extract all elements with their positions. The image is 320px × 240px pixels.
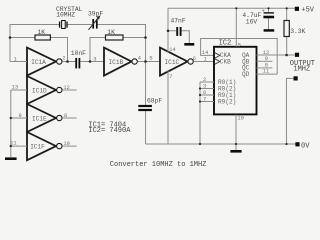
wire IC1C output pin 6 to IC2 CKB (193, 56, 214, 62)
svg-text:3.3K: 3.3K (290, 28, 305, 35)
svg-text:4: 4 (138, 56, 141, 62)
wire feedback resistor R1 row (10, 38, 68, 62)
svg-text:Converter 10MHZ to 1MHZ: Converter 10MHZ to 1MHZ (110, 161, 207, 169)
text caption (110, 161, 207, 169)
svg-text:11: 11 (263, 69, 269, 75)
IC2 7490A box (214, 39, 257, 114)
svg-text:10MHZ: 10MHZ (56, 11, 75, 18)
text IC list (88, 122, 131, 135)
svg-text:10: 10 (63, 141, 69, 147)
wire IC1E output pin 8 stub (62, 113, 76, 119)
trimmer capacitor CT 39pF (88, 11, 103, 30)
wire oscillator top loop (10, 25, 146, 145)
wire unused inputs bus IC1D IC1E IC1F (10, 85, 27, 157)
wire IC1A input pin 1 (10, 56, 27, 62)
wire IC1F output pin 10 stub (62, 141, 76, 147)
svg-text:IC2: IC2 (219, 39, 232, 47)
crystal X1 10MHZ (56, 6, 83, 29)
capacitor C2 47nF (168, 18, 189, 44)
svg-text:3: 3 (93, 56, 96, 62)
wire IC2 pin 10 GND drop (236, 115, 244, 150)
svg-text:2: 2 (203, 77, 206, 83)
svg-text:3: 3 (203, 83, 206, 89)
inverter IC1A (27, 48, 62, 76)
svg-text:6: 6 (193, 56, 196, 62)
resistor R2 1K (106, 29, 124, 40)
svg-text:IC1B: IC1B (109, 59, 124, 66)
svg-text:12: 12 (63, 85, 69, 91)
svg-text:1: 1 (14, 56, 17, 62)
inverter IC1E (27, 104, 62, 132)
wire +5V top rail (168, 7, 295, 9)
wire QD pin 11 stub (257, 69, 278, 75)
wire C 10nF to IC1B input pin 3 (81, 56, 105, 62)
svg-text:9: 9 (19, 113, 22, 119)
resistor R3 3.3K (284, 8, 306, 55)
svg-text:IC1C: IC1C (165, 59, 180, 66)
svg-text:39pF: 39pF (88, 11, 103, 18)
wire IC1D output pin 12 stub (62, 85, 76, 91)
inverter IC1F (27, 132, 62, 160)
svg-text:IC1D: IC1D (32, 87, 47, 94)
resistor R1 1K (35, 29, 50, 40)
ground bar for C2 (184, 43, 194, 46)
wire reset bus R0 R9 pins (200, 77, 214, 144)
svg-text:1MHZ: 1MHZ (293, 66, 310, 74)
svg-text:QD: QD (242, 71, 250, 78)
svg-text:IC2= 7490A: IC2= 7490A (88, 127, 131, 135)
svg-text:7: 7 (169, 74, 172, 80)
svg-text:12: 12 (263, 50, 269, 56)
svg-text:16V: 16V (246, 19, 258, 26)
svg-text:IC1F: IC1F (30, 144, 45, 151)
svg-text:1: 1 (204, 57, 207, 63)
svg-text:14: 14 (169, 47, 175, 53)
svg-text:0V: 0V (301, 142, 310, 150)
svg-text:10nF: 10nF (71, 50, 86, 57)
svg-text:1K: 1K (107, 29, 115, 36)
ground bar for unused inputs (5, 157, 17, 160)
svg-text:68pF: 68pF (147, 97, 162, 104)
wire QA pin 12 to output (257, 50, 295, 56)
svg-text:8: 8 (64, 113, 67, 119)
resistor R2 1K row wire (90, 38, 146, 62)
wire IC1C pin 7 GND drop (168, 70, 173, 144)
wire IC1C pin 14 VCC riser (168, 8, 176, 53)
ground bar for IC2 pin 10 (230, 150, 241, 153)
inverter IC1B (104, 48, 137, 76)
wire QD to CKA feedback loop (201, 39, 278, 75)
wire QC pin 8 stub (257, 62, 273, 68)
terminal OUTPUT 1MHZ (290, 53, 315, 74)
svg-text:8: 8 (265, 62, 268, 68)
svg-text:1K: 1K (38, 29, 46, 36)
svg-text:13: 13 (12, 85, 18, 91)
svg-text:+5V: +5V (301, 6, 314, 14)
svg-text:+: + (262, 8, 265, 14)
wire bottom ground rail (146, 143, 297, 145)
svg-text:5: 5 (149, 56, 152, 62)
svg-text:2: 2 (62, 56, 65, 62)
inverter IC1D (27, 76, 62, 104)
capacitor C4 4.7uF 16V electrolytic (242, 8, 274, 29)
svg-text:47nF: 47nF (171, 18, 186, 25)
inverter IC1C (160, 48, 193, 76)
svg-text:7: 7 (203, 96, 206, 102)
wire IC1A output pin 2 to C 10nF (62, 56, 75, 62)
wire IC2 pin 5 VCC riser (236, 8, 241, 48)
wire QB pin 9 stub (257, 56, 273, 62)
svg-text:R9(2): R9(2) (218, 99, 236, 106)
terminal output ground (287, 76, 298, 144)
svg-text:10: 10 (237, 116, 243, 122)
svg-text:6: 6 (203, 90, 206, 96)
svg-text:5: 5 (238, 42, 241, 48)
svg-text:CKB: CKB (220, 59, 231, 66)
capacitor C3 68pF (138, 97, 162, 110)
ground bar for C4 (264, 29, 275, 32)
terminal 0V (295, 142, 310, 150)
svg-text:9: 9 (265, 56, 268, 62)
terminal +5V (295, 6, 315, 14)
svg-text:IC1E: IC1E (32, 115, 47, 122)
wire CKA pin 14 label (202, 50, 208, 62)
svg-text:IC1A: IC1A (31, 59, 46, 66)
wire IC1B output pin 4 to IC1C input pin 5 (138, 56, 160, 62)
capacitor C1 10nF (71, 50, 86, 68)
svg-text:14: 14 (202, 50, 208, 56)
